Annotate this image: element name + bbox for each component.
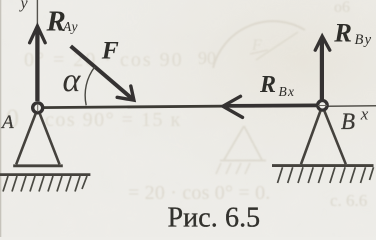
x-axis line <box>328 105 376 108</box>
svg-text:x: x <box>360 105 369 124</box>
svg-text:R: R <box>259 72 276 98</box>
angle alpha arc <box>85 67 95 106</box>
svg-text:Ay: Ay <box>62 19 79 34</box>
svg-text:R: R <box>333 17 352 47</box>
svg-text:Рис. 6.5: Рис. 6.5 <box>168 203 261 234</box>
pin circle A <box>33 103 43 113</box>
pin circle B <box>318 101 328 111</box>
ground hatching B <box>278 167 374 183</box>
support triangle B <box>301 111 346 164</box>
svg-text:F: F <box>101 36 119 65</box>
svg-text:By: By <box>355 32 373 48</box>
force R_By arrow <box>320 38 324 100</box>
force R_Bx arrow <box>224 104 317 108</box>
svg-text:y: y <box>19 0 29 12</box>
svg-text:Bx: Bx <box>279 84 296 99</box>
ghost arc (bleed-through figure, top right) <box>213 21 305 68</box>
ground line A <box>0 173 90 176</box>
paper mottle <box>0 0 1 1</box>
ghost diagonal arrow <box>256 32 298 60</box>
ghost support triangle (left of B) <box>220 126 266 161</box>
y-axis line <box>36 0 38 32</box>
support triangle A <box>16 114 59 165</box>
svg-text:α: α <box>63 62 82 99</box>
force F arrow <box>71 46 133 99</box>
svg-text:A: A <box>0 112 14 133</box>
ground hatching A <box>3 176 87 192</box>
ground line B <box>272 164 374 167</box>
force R_Ay arrow <box>35 28 39 102</box>
scan edge artifact left <box>0 0 1 237</box>
svg-text:B: B <box>341 109 355 134</box>
beam A to B <box>40 105 320 107</box>
